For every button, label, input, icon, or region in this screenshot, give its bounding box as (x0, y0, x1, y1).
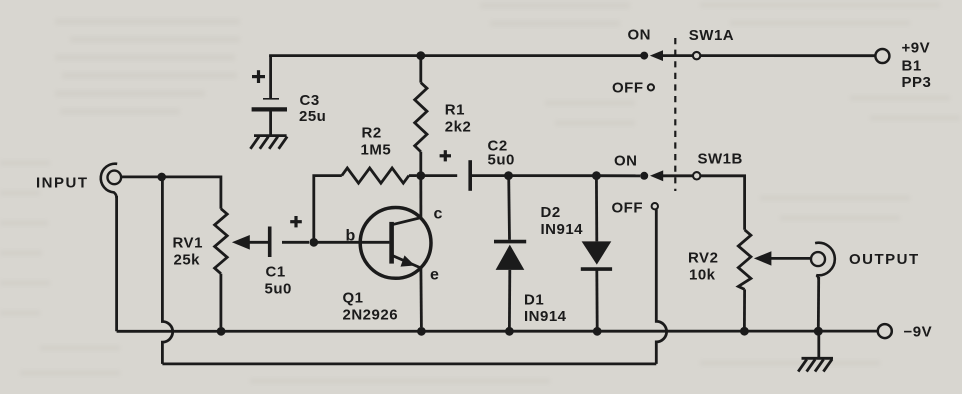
svg-text:SW1A: SW1A (689, 27, 734, 44)
capacitor C2 polarity plus (440, 150, 451, 161)
svg-text:10k: 10k (689, 267, 716, 284)
svg-text:+9V: +9V (902, 40, 931, 57)
capacitor C2 positive lead (wire-end plate) (421, 174, 457, 177)
node D2 bottom rail junction (593, 327, 602, 336)
node OUTPUT bottom rail junction (814, 327, 823, 336)
jack INPUT inner circle (108, 171, 122, 185)
wire bottom rail (117, 330, 878, 333)
svg-text:e: e (430, 267, 439, 284)
switch SW1B OFF contact open circle (652, 203, 658, 209)
svg-text:R2: R2 (362, 125, 382, 142)
transistor Q1 2N2926 circle (360, 208, 431, 279)
switch link dashed line SW1A-SW1B (674, 38, 676, 191)
wire OUTPUT ground stem (817, 331, 820, 358)
wire C2 to D1 node (472, 174, 508, 177)
svg-text:OFF: OFF (612, 80, 644, 97)
node RV2 bottom rail junction (740, 327, 749, 336)
wire left riser with hop over bottom rail (162, 177, 172, 364)
switch SW1A pole open circle (693, 52, 700, 59)
switch SW1A OFF contact open circle (648, 84, 654, 90)
wire top rail from C3 corner to SW1A ON contact (271, 56, 644, 57)
svg-text:B1: B1 (902, 58, 922, 75)
node INPUT tip junction (157, 173, 166, 182)
capacitor C3 polarity plus (252, 70, 265, 83)
wire emitter down to bottom rail (419, 268, 422, 327)
wire OUTPUT sleeve down to bottom rail (817, 277, 820, 331)
capacitor C3 positive lead (wire-end plate) (269, 56, 272, 99)
svg-text:RV2: RV2 (688, 250, 718, 267)
ground below OUTPUT (798, 358, 833, 371)
node R1 bottom / R2 / C2 / collector junction (416, 171, 425, 180)
node SW1A ON contact dot (640, 52, 648, 60)
svg-text:C3: C3 (300, 92, 320, 109)
resistor R2 1M5 horizontal (342, 168, 417, 183)
svg-text:b: b (346, 228, 356, 245)
potentiometer RV1 25k vertical (215, 209, 228, 327)
capacitor C1 positive lead (wire-end plate) (282, 241, 309, 244)
transistor Q1 base bar (389, 222, 394, 264)
node RV1 bottom rail junction (217, 327, 226, 336)
wire SW1B OFF contact down with hop over bottom rail (656, 209, 666, 364)
svg-text:ON: ON (614, 153, 638, 170)
wire D1 node to D2 node (509, 174, 597, 177)
node top rail / R1 junction (416, 51, 425, 60)
node D1 bottom rail junction (505, 327, 514, 336)
wire base node to Q1 base (314, 241, 390, 244)
node SW1B ON contact dot (640, 172, 648, 180)
node D2 junction (592, 171, 601, 180)
capacitor C3 top plate thin (263, 98, 279, 100)
resistor R1 2k2 vertical (415, 56, 427, 172)
transistor Q1 collector line (392, 218, 421, 225)
svg-text:INPUT: INPUT (36, 175, 89, 192)
diode D1 IN914 cathode-up (494, 176, 526, 328)
capacitor C1 polarity plus (290, 216, 302, 227)
svg-text:R1: R1 (445, 102, 465, 119)
svg-text:5u0: 5u0 (265, 281, 292, 298)
potentiometer RV2 10k vertical (738, 230, 751, 327)
capacitor C3 bottom plate (252, 107, 287, 111)
wire INPUT tip to RV1 top (121, 177, 221, 209)
svg-text:25k: 25k (174, 252, 201, 269)
node C2 / D1 junction (504, 171, 513, 180)
svg-text:ON: ON (628, 27, 652, 44)
svg-text:SW1B: SW1B (698, 151, 743, 168)
svg-text:−9V: −9V (904, 324, 933, 341)
svg-text:OUTPUT: OUTPUT (849, 251, 920, 268)
transistor Q1 emitter line with arrow (392, 255, 421, 268)
wire collector up to R1 node (419, 176, 422, 218)
svg-text:Q1: Q1 (343, 290, 364, 307)
svg-text:5u0: 5u0 (488, 152, 515, 169)
jack OUTPUT sleeve arc (815, 243, 835, 280)
wire feedback corner down to base node (314, 176, 342, 238)
potentiometer RV2 wiper arrow (754, 251, 811, 265)
ground below C3 (250, 136, 287, 149)
wire D2 node to SW1B ON contact (596, 174, 640, 177)
switch SW1A blade arrow (650, 50, 693, 61)
svg-text:IN914: IN914 (541, 221, 584, 238)
svg-text:2k2: 2k2 (445, 119, 472, 136)
svg-text:1M5: 1M5 (361, 142, 392, 159)
svg-text:D2: D2 (541, 204, 561, 221)
node C1 / R2 / base junction (309, 238, 318, 247)
switch SW1B blade arrow (650, 170, 693, 181)
switch SW1B pole open circle (693, 172, 700, 179)
svg-text:RV1: RV1 (173, 235, 203, 252)
svg-text:25u: 25u (299, 108, 326, 125)
node emitter bottom rail junction (417, 327, 426, 336)
wire SW1B pole to RV2 top (701, 176, 745, 230)
svg-text:c: c (434, 206, 443, 223)
svg-text:D1: D1 (524, 292, 544, 309)
wire INPUT sleeve down to bottom rail (115, 196, 118, 331)
battery B1 terminal circle (875, 49, 889, 63)
battery negative terminal -9V circle (878, 324, 892, 338)
wire C3 to ground (269, 111, 272, 135)
diode D2 IN914 cathode-down (581, 176, 612, 328)
capacitor C2 plate bar (468, 160, 472, 191)
svg-text:OFF: OFF (612, 200, 644, 217)
svg-text:IN914: IN914 (524, 308, 567, 325)
capacitor C1 plate bar (268, 227, 272, 258)
wire SW1A pole to battery terminal (700, 54, 875, 57)
jack OUTPUT inner circle (811, 252, 825, 266)
svg-text:2N2926: 2N2926 (343, 307, 399, 324)
svg-text:PP3: PP3 (902, 74, 932, 91)
jack INPUT sleeve arc (101, 164, 117, 198)
svg-text:C1: C1 (266, 264, 286, 281)
wire lower return rail (162, 362, 656, 365)
potentiometer RV1 wiper arrow (232, 235, 268, 250)
